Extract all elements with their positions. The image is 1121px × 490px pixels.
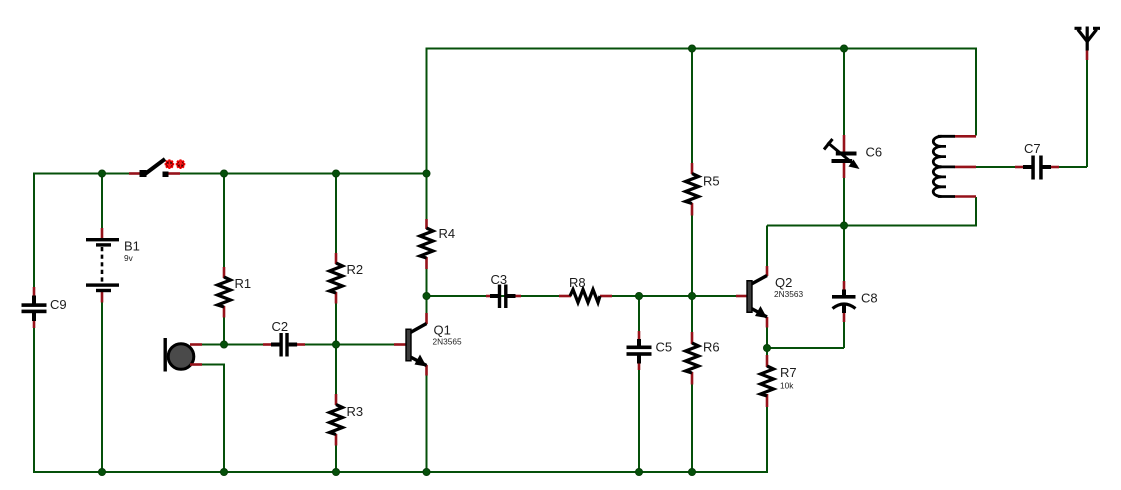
wire C5 column: [638, 296, 640, 472]
junction node R5 R6: [688, 292, 695, 299]
switch actuator icon down: [165, 159, 175, 169]
capacitor C9: [22, 287, 67, 328]
junction node mic R1: [220, 341, 227, 348]
wire bottom ground rail: [33, 471, 768, 473]
svg-text:R7: R7: [780, 365, 797, 380]
junction node B1 top: [98, 170, 105, 177]
svg-text:C7: C7: [1024, 141, 1041, 156]
resistor R8: [559, 275, 612, 303]
wire left column C9: [33, 173, 35, 474]
wire Q2 emitter to C8 bottom: [767, 347, 844, 349]
svg-text:2N3565: 2N3565: [433, 337, 462, 347]
resistor R4: [420, 219, 455, 269]
svg-text:R6: R6: [703, 340, 720, 355]
svg-text:R4: R4: [439, 226, 456, 241]
resistor R1: [218, 267, 252, 318]
svg-text:R5: R5: [703, 174, 720, 189]
svg-text:9v: 9v: [124, 253, 134, 263]
svg-text:10k: 10k: [780, 381, 794, 391]
junction node C6 top rail: [840, 45, 847, 52]
svg-text:R3: R3: [347, 404, 364, 419]
junction node ground B1: [98, 468, 105, 475]
wire base row mic to Q1: [201, 344, 395, 346]
wire top rail: [426, 48, 976, 50]
battery B1: [86, 228, 140, 303]
capacitor C2: [263, 319, 305, 357]
wire Q2 column with R7: [766, 226, 768, 474]
junction node rail corner R4: [423, 170, 430, 177]
resistor R2: [330, 253, 364, 304]
junction node Q2 emitter R7: [763, 344, 770, 351]
wire Q1/R4 column: [426, 48, 428, 473]
wire C7 to antenna: [1058, 59, 1087, 167]
junction node R1 top: [220, 170, 227, 177]
wire coil bottom pin to tank row: [975, 198, 977, 227]
svg-text:R1: R1: [235, 276, 252, 291]
wire coil tap to C7: [975, 166, 1016, 168]
switch SW1: [129, 159, 180, 177]
wire battery column: [101, 174, 103, 473]
wire mic ground return: [201, 365, 224, 473]
svg-text:C6: C6: [866, 145, 883, 160]
junction node R4 C3: [423, 292, 430, 299]
resistor R6: [686, 332, 720, 385]
svg-text:Q1: Q1: [434, 323, 451, 338]
wire R1 column: [223, 174, 225, 345]
resistor R3: [330, 394, 364, 446]
junction node R5 top rail: [688, 45, 695, 52]
microphone MIC1: [164, 338, 203, 372]
wire C6/C8 column: [843, 48, 845, 349]
junction node ground mic: [220, 468, 227, 475]
wire R2/R3 column: [335, 174, 337, 473]
svg-text:B1: B1: [124, 239, 140, 254]
svg-text:C2: C2: [272, 319, 289, 334]
capacitor C3: [486, 272, 521, 308]
wire left supply rail: [34, 173, 426, 175]
junction node ground R6: [688, 468, 695, 475]
svg-text:R8: R8: [569, 275, 586, 290]
svg-text:C5: C5: [656, 340, 673, 355]
transistor Q1 2N3565: [394, 313, 462, 376]
svg-text:C9: C9: [50, 297, 67, 312]
svg-text:R2: R2: [347, 262, 364, 277]
junction node R2 top: [332, 170, 339, 177]
svg-text:C3: C3: [491, 272, 508, 287]
resistor R7 10k: [761, 355, 797, 407]
variable capacitor C6: [824, 135, 882, 178]
capacitor C7: [1015, 141, 1059, 180]
switch actuator icon up: [176, 159, 186, 169]
junction node C5 top: [635, 292, 642, 299]
junction node ground C5: [635, 468, 642, 475]
svg-text:C8: C8: [861, 291, 878, 306]
capacitor C8: [832, 281, 878, 322]
inductor L1 tapped coil: [933, 136, 976, 196]
capacitor C5: [627, 331, 673, 370]
junction node ground R3: [332, 468, 339, 475]
junction node C6 C8 tank: [840, 222, 847, 229]
wire coil top pin to top rail: [975, 48, 977, 136]
resistor R5: [686, 163, 720, 216]
svg-text:2N3563: 2N3563: [774, 289, 803, 299]
wire signal row Q1 to Q2: [427, 295, 738, 297]
svg-text:Q2: Q2: [775, 275, 792, 290]
junction node R2 R3 base: [332, 341, 339, 348]
wire tank row Q2 collector to coil: [767, 197, 977, 226]
junction node ground Q1: [423, 468, 430, 475]
transistor Q2 2N3563: [736, 266, 803, 328]
wire R5/R6 column: [691, 48, 693, 473]
antenna ANT1: [1075, 27, 1101, 61]
